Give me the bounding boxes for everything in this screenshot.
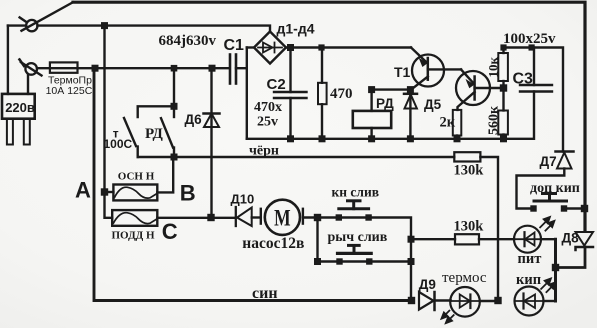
svg-text:25v: 25v xyxy=(257,115,278,130)
svg-text:10к: 10к xyxy=(486,57,501,78)
svg-text:С: С xyxy=(162,219,178,244)
svg-text:100С: 100С xyxy=(104,137,133,151)
svg-text:пит: пит xyxy=(518,251,542,267)
svg-text:2к: 2к xyxy=(440,115,456,131)
svg-text:10А 125С: 10А 125С xyxy=(46,85,93,97)
svg-text:Д6: Д6 xyxy=(185,112,203,127)
svg-text:130k: 130k xyxy=(454,163,485,179)
svg-text:РД: РД xyxy=(145,126,164,142)
svg-text:220в: 220в xyxy=(5,100,35,115)
svg-text:ПОДД Н: ПОДД Н xyxy=(112,230,155,242)
svg-text:C1: C1 xyxy=(224,37,245,54)
svg-text:470: 470 xyxy=(330,86,353,102)
svg-text:насос12в: насос12в xyxy=(242,235,304,252)
svg-text:А: А xyxy=(75,178,91,203)
svg-text:560к: 560к xyxy=(487,105,502,135)
svg-text:доп кип: доп кип xyxy=(530,181,580,196)
svg-text:Д9: Д9 xyxy=(419,277,436,292)
svg-text:ОСН Н: ОСН Н xyxy=(118,171,155,183)
svg-text:684j630v: 684j630v xyxy=(159,33,217,49)
svg-text:кн слив: кн слив xyxy=(332,185,380,200)
svg-text:Д5: Д5 xyxy=(424,97,442,112)
svg-text:470x: 470x xyxy=(254,100,282,115)
svg-text:рыч слив: рыч слив xyxy=(328,230,388,245)
svg-text:Д8: Д8 xyxy=(562,231,580,246)
svg-text:В: В xyxy=(180,181,196,206)
svg-text:Д10: Д10 xyxy=(231,191,255,206)
svg-text:М: М xyxy=(274,205,291,230)
svg-text:130k: 130k xyxy=(454,219,485,235)
svg-text:термос: термос xyxy=(442,270,487,286)
svg-text:РД: РД xyxy=(376,96,394,111)
svg-text:С3: С3 xyxy=(513,71,534,88)
svg-text:чёрн: чёрн xyxy=(249,143,279,158)
svg-text:100x25v: 100x25v xyxy=(503,31,556,47)
svg-text:д1-д4: д1-д4 xyxy=(277,21,315,37)
svg-text:Т1: Т1 xyxy=(394,64,411,80)
svg-text:син: син xyxy=(252,285,278,302)
svg-text:C2: C2 xyxy=(267,76,286,93)
svg-text:Д7: Д7 xyxy=(540,154,557,169)
svg-text:кип: кип xyxy=(516,272,541,288)
